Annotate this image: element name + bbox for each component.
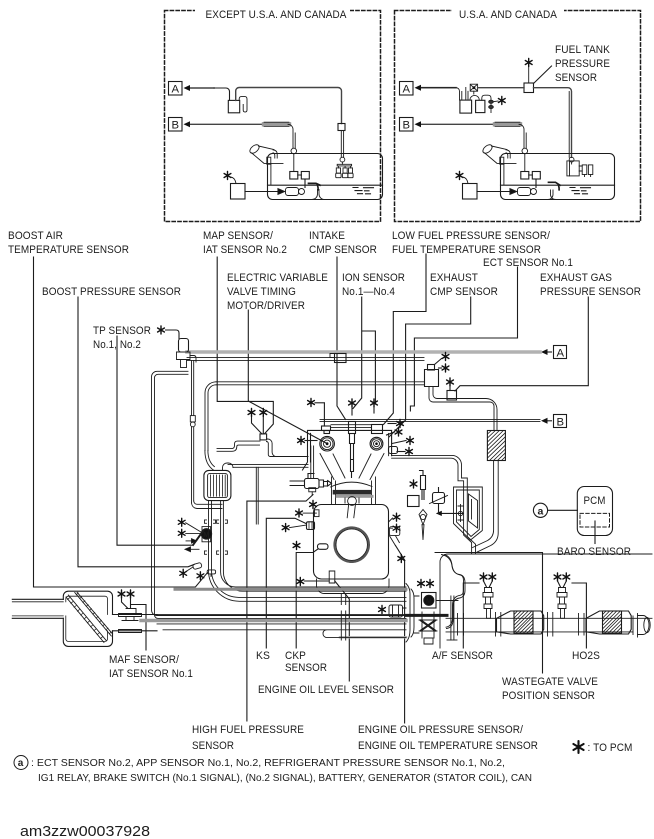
svg-text:TEMPERATURE SENSOR: TEMPERATURE SENSOR xyxy=(8,244,129,256)
KS knock sensor xyxy=(282,522,314,532)
charcoal canister 2 (right box) xyxy=(476,100,485,112)
star mark control unit (left box) xyxy=(224,172,231,180)
leader LOW FUEL PRESSURE/FUEL TEMPERATURE SENSOR xyxy=(384,254,427,425)
fuel pipe from plenum to pump xyxy=(311,446,314,478)
leader BOOST AIR TEMPERATURE SENSOR xyxy=(34,257,208,587)
wire A to canister elbow (left box) xyxy=(214,88,230,100)
in-tank pump spider (left box) xyxy=(336,157,353,177)
engine bay inner outline xyxy=(216,382,424,385)
svg-text:HIGH FUEL PRESSURE: HIGH FUEL PRESSURE xyxy=(192,724,304,736)
saddle step (right box) xyxy=(549,182,561,190)
intake manifold top edge xyxy=(223,463,309,524)
engine oil level sensor tab xyxy=(297,571,335,586)
leader MAF SENSOR/IAT SENSOR No.1 xyxy=(131,605,146,651)
X shutoff valve box (right box) xyxy=(470,84,477,91)
svg-text:PRESSURE: PRESSURE xyxy=(555,58,610,70)
svg-text:a: a xyxy=(18,758,24,769)
oil pressure/temp sensor group xyxy=(398,471,427,563)
leader ION SENSOR No.1-No.4 xyxy=(353,297,375,409)
svg-text:IAT SENSOR No.1: IAT SENSOR No.1 xyxy=(109,668,193,680)
throttle butterfly xyxy=(193,531,203,545)
leader ECT SENSOR No.1 xyxy=(410,267,517,411)
node A (left box) xyxy=(169,82,215,96)
pipe canister1 to X-valve (right box) xyxy=(466,88,468,101)
leader ELECTRIC VARIABLE VALVE TIMING MOTOR/DRIVER xyxy=(248,310,326,443)
throttle motor M xyxy=(178,518,211,542)
check valve (right box) xyxy=(489,100,494,112)
svg-text:WASTEGATE VALVE: WASTEGATE VALVE xyxy=(502,676,598,688)
fuel hose thick segment (left box) xyxy=(264,122,289,126)
star mark check valve (right box) xyxy=(498,97,505,105)
svg-text:A: A xyxy=(557,348,565,360)
engine block xyxy=(314,505,389,580)
svg-text:A: A xyxy=(403,84,411,96)
svg-text:SENSOR: SENSOR xyxy=(285,662,327,674)
pipe flange pair 4 xyxy=(579,614,585,636)
leader A/F SENSOR xyxy=(463,583,479,648)
fuel liquid marks (left box) xyxy=(353,188,374,194)
svg-text:TP SENSOR: TP SENSOR xyxy=(93,325,151,337)
star marks right of head xyxy=(387,420,414,456)
inline connector (left box) xyxy=(338,124,345,131)
thin pair line under A-line xyxy=(187,358,424,361)
star marks TP pipes xyxy=(192,361,194,503)
svg-text:ECT SENSOR No.1: ECT SENSOR No.1 xyxy=(483,257,573,269)
svg-text:B: B xyxy=(557,417,565,429)
wire M box to bell housing xyxy=(436,600,458,602)
component under A-line xyxy=(330,354,346,363)
pipe flanges xyxy=(341,594,345,641)
transfer M motor box xyxy=(418,580,436,609)
svg-text:BOOST PRESSURE SENSOR: BOOST PRESSURE SENSOR xyxy=(42,286,181,298)
canister vent U-pipe (left box) xyxy=(239,96,247,112)
air intake duct xyxy=(12,599,63,618)
dashed enclosure U.S.A. AND CANADA xyxy=(395,11,641,222)
leader INTAKE CMP SENSOR xyxy=(337,257,346,420)
in-tank pump module (right box) xyxy=(567,92,593,177)
driveline cross joint xyxy=(406,612,447,644)
saddle step (left box) xyxy=(309,183,321,189)
crank pulley flywheel toothed xyxy=(335,528,369,562)
exhaust frame outline xyxy=(440,554,652,648)
leader HO2S xyxy=(572,583,586,648)
saddle divider lobes (left box) xyxy=(312,190,325,200)
inline square fittings on fuel line (left box) xyxy=(290,172,298,180)
leader EXHAUST CMP SENSOR xyxy=(389,297,471,437)
high pressure fuel pump xyxy=(290,474,332,518)
svg-text:INTAKE: INTAKE xyxy=(309,230,345,242)
engine bay outline top-left xyxy=(152,371,407,615)
fuel pipe corner down to tank (right box) xyxy=(519,124,526,148)
svg-text:PRESSURE SENSOR: PRESSURE SENSOR xyxy=(540,286,641,298)
lower pipe with end cap xyxy=(163,630,406,638)
node A arrow (main) xyxy=(541,346,567,359)
svg-text:BOOST AIR: BOOST AIR xyxy=(8,230,63,242)
svg-text:VALVE TIMING: VALVE TIMING xyxy=(227,286,296,298)
jet pump module (right box) xyxy=(518,188,537,196)
inline connector on TP pipe xyxy=(190,416,222,509)
vapor dome (right box) xyxy=(470,91,479,100)
svg-text:EXCEPT U.S.A. AND CANADA: EXCEPT U.S.A. AND CANADA xyxy=(206,9,347,21)
svg-text:HO2S: HO2S xyxy=(572,650,600,662)
svg-text:IAT SENSOR No.2: IAT SENSOR No.2 xyxy=(203,244,287,256)
cylinder and piston xyxy=(331,477,376,518)
star mark control unit (right box) xyxy=(456,172,463,180)
fuel liquid marks (right box) xyxy=(570,188,591,194)
PCM module xyxy=(577,487,612,544)
ECT sensor No.1 canister xyxy=(425,353,449,387)
fuel hose thick segment (right box) xyxy=(495,122,520,126)
exhaust pipe run xyxy=(446,618,652,632)
dashed enclosure EXCEPT U.S.A. AND CANADA xyxy=(165,11,641,222)
fuel filler neck (left box) xyxy=(248,143,283,185)
svg-text:A: A xyxy=(172,84,180,96)
heavy subframe line xyxy=(175,588,406,591)
cylinder head outline xyxy=(303,430,392,470)
bell housing outline xyxy=(406,584,419,643)
svg-text:: TO PCM: : TO PCM xyxy=(588,742,633,754)
boost air temp fitting xyxy=(197,570,216,580)
ball joint on fuel pipe (left box) xyxy=(291,148,297,154)
star legend TO PCM xyxy=(573,741,632,754)
leader CKP SENSOR xyxy=(296,549,318,648)
svg-text:: ECT SENSOR No.2, APP SENSOR: : ECT SENSOR No.2, APP SENSOR No.1, No.2… xyxy=(31,758,505,769)
wire control unit to jet pump with arrow (left box) xyxy=(245,189,285,195)
node A (right box) xyxy=(400,82,457,96)
exhaust gas pressure sensor box xyxy=(447,378,457,400)
intake CMP sensor xyxy=(298,399,335,452)
svg-text:PCM: PCM xyxy=(584,495,606,507)
heavy vacuum line to A xyxy=(187,350,540,354)
svg-text:IG1 RELAY, BRAKE SWITCH (No.1: IG1 RELAY, BRAKE SWITCH (No.1 SIGNAL), (… xyxy=(38,773,532,784)
wire A-line through FTP sensor to tank (right box) xyxy=(478,88,572,158)
svg-text:ENGINE OIL PRESSURE SENSOR/: ENGINE OIL PRESSURE SENSOR/ xyxy=(358,724,524,736)
svg-text:M: M xyxy=(426,599,432,606)
wire A elbow into canister 1 (right box) xyxy=(421,88,462,100)
svg-text:CMP SENSOR: CMP SENSOR xyxy=(430,286,498,298)
catalytic converter 2 xyxy=(586,611,631,634)
heavy driveshaft line xyxy=(141,619,406,622)
wire control unit to jet pump with arrow (right box) xyxy=(477,189,517,195)
svg-text:B: B xyxy=(172,120,180,132)
fuel tank (right box) xyxy=(501,154,615,200)
coolant pipe from ECT to turbo xyxy=(429,387,497,431)
svg-text:EXHAUST: EXHAUST xyxy=(430,272,478,284)
leader ENGINE OIL LEVEL SENSOR xyxy=(335,581,350,681)
leader BOOST PRESSURE SENSOR xyxy=(78,297,194,567)
engine right side outline xyxy=(392,455,483,553)
intake pipe to engine bottom xyxy=(157,615,406,624)
svg-text:ENGINE OIL TEMPERATURE SENSOR: ENGINE OIL TEMPERATURE SENSOR xyxy=(358,740,538,752)
svg-text:FUEL TEMPERATURE SENSOR: FUEL TEMPERATURE SENSOR xyxy=(392,244,541,256)
canister outlet pipe up to long wire (left box) xyxy=(236,88,342,124)
intercooler xyxy=(204,470,231,500)
svg-text:POSITION SENSOR: POSITION SENSOR xyxy=(502,690,595,702)
charcoal canister 1 (right box) xyxy=(460,100,472,113)
svg-text:B: B xyxy=(403,120,411,132)
svg-text:am3zzw00037928: am3zzw00037928 xyxy=(20,823,150,839)
turbo catalyst hatched xyxy=(487,431,505,461)
air cleaner box xyxy=(63,591,112,646)
bay bottom right outline xyxy=(435,552,455,554)
ball joint on fuel pipe (right box) xyxy=(522,148,528,154)
starter motor component xyxy=(379,605,406,617)
leader WASTEGATE VALVE POSITION SENSOR xyxy=(441,513,543,673)
air filter diagonal element xyxy=(66,592,113,642)
MAF sensor plate xyxy=(113,590,158,633)
svg-text:BARO SENSOR: BARO SENSOR xyxy=(557,546,631,558)
jet pump module (left box) xyxy=(286,188,305,196)
footnote a xyxy=(14,756,532,785)
wastegate actuator xyxy=(430,488,464,522)
fuel filler neck (right box) xyxy=(481,143,516,185)
svg-text:EXHAUST GAS: EXHAUST GAS xyxy=(540,272,612,284)
fuel level line (right box) xyxy=(501,184,615,186)
HO2S sensor xyxy=(554,573,570,618)
node B (right box) xyxy=(400,118,496,132)
CKP sensor tip xyxy=(293,542,328,550)
wire connector down to pump module (left box) xyxy=(341,131,343,158)
intake hose to MAP sensor xyxy=(217,439,308,457)
svg-text:CKP: CKP xyxy=(285,650,306,662)
svg-text:CMP SENSOR: CMP SENSOR xyxy=(309,244,377,256)
leader MAP SENSOR/IAT SENSOR No.2 xyxy=(217,257,273,434)
svg-text:MAF SENSOR/: MAF SENSOR/ xyxy=(109,654,180,666)
svg-text:ENGINE OIL LEVEL SENSOR: ENGINE OIL LEVEL SENSOR xyxy=(258,684,394,696)
control unit box (left box) xyxy=(231,184,246,200)
A/F sensor xyxy=(480,573,496,618)
fuel tank pressure sensor box xyxy=(524,59,552,93)
leader HIGH FUEL PRESSURE SENSOR xyxy=(247,495,313,721)
leader EXHAUST GAS PRESSURE SENSOR xyxy=(455,297,588,391)
svg-text:U.S.A. AND CANADA: U.S.A. AND CANADA xyxy=(459,9,557,21)
fuel pipe corner down to tank (left box) xyxy=(288,124,295,148)
svg-text:A/F SENSOR: A/F SENSOR xyxy=(432,650,493,662)
MAP/IAT funnel with stars xyxy=(248,409,267,440)
overflow pipe to check valve (right box) xyxy=(482,95,491,101)
catalytic converter 1 xyxy=(497,611,544,634)
svg-text:ION SENSOR: ION SENSOR xyxy=(342,272,405,284)
pipe flange pair 2 xyxy=(496,613,501,637)
svg-text:KS: KS xyxy=(256,650,270,662)
fuel tank (left box) xyxy=(268,154,383,200)
leader TP SENSOR xyxy=(117,336,193,545)
node B arrow (main) xyxy=(541,415,567,428)
valve funnels in head xyxy=(320,454,384,480)
svg-text:a: a xyxy=(538,505,544,517)
oil pan xyxy=(317,579,390,594)
fuel line to B (double) xyxy=(320,419,540,421)
svg-text:No.1, No.2: No.1, No.2 xyxy=(93,339,141,351)
exhaust CMP sensor xyxy=(370,425,383,451)
small arrows near throttle xyxy=(185,539,199,552)
lower gray pipe xyxy=(340,636,406,638)
saddle divider lobes (right box) xyxy=(548,190,556,200)
dipstick notch on block xyxy=(315,510,320,517)
spark plug and coil xyxy=(349,399,378,478)
node a circle xyxy=(533,503,577,517)
svg-text:SENSOR: SENSOR xyxy=(192,740,234,752)
boost pressure fitting xyxy=(180,562,202,577)
svg-text:ELECTRIC VARIABLE: ELECTRIC VARIABLE xyxy=(227,272,328,284)
leader ENGINE OIL PRESSURE/TEMPERATURE SENSOR xyxy=(396,546,405,724)
exhaust downpipe from turbo xyxy=(473,461,499,553)
intake pipes vertical left xyxy=(208,501,406,602)
purge canister (left box) xyxy=(228,100,239,112)
control unit box (right box) xyxy=(463,184,478,200)
svg-text:MOTOR/DRIVER: MOTOR/DRIVER xyxy=(227,300,305,312)
engine oil pressure/temperature sensor on block xyxy=(389,513,400,545)
node B (left box) xyxy=(169,118,265,132)
transmission S contour xyxy=(442,555,466,641)
svg-text:SENSOR: SENSOR xyxy=(555,72,597,84)
tailpipe tip xyxy=(633,614,650,638)
pipe flange pair 3 xyxy=(548,613,553,637)
svg-text:No.1—No.4: No.1—No.4 xyxy=(342,286,395,298)
svg-text:LOW FUEL PRESSURE SENSOR/: LOW FUEL PRESSURE SENSOR/ xyxy=(392,230,551,242)
fuel rail between cam caps xyxy=(331,425,372,428)
svg-text:MAP SENSOR/: MAP SENSOR/ xyxy=(203,230,274,242)
TP sensor body xyxy=(158,326,196,368)
inline square fittings (right box) xyxy=(521,172,529,180)
pipe flange pair 1 xyxy=(458,614,464,636)
svg-text:FUEL TANK: FUEL TANK xyxy=(555,44,610,56)
leader KS xyxy=(266,518,306,648)
fuel level line (left box) xyxy=(268,184,383,186)
